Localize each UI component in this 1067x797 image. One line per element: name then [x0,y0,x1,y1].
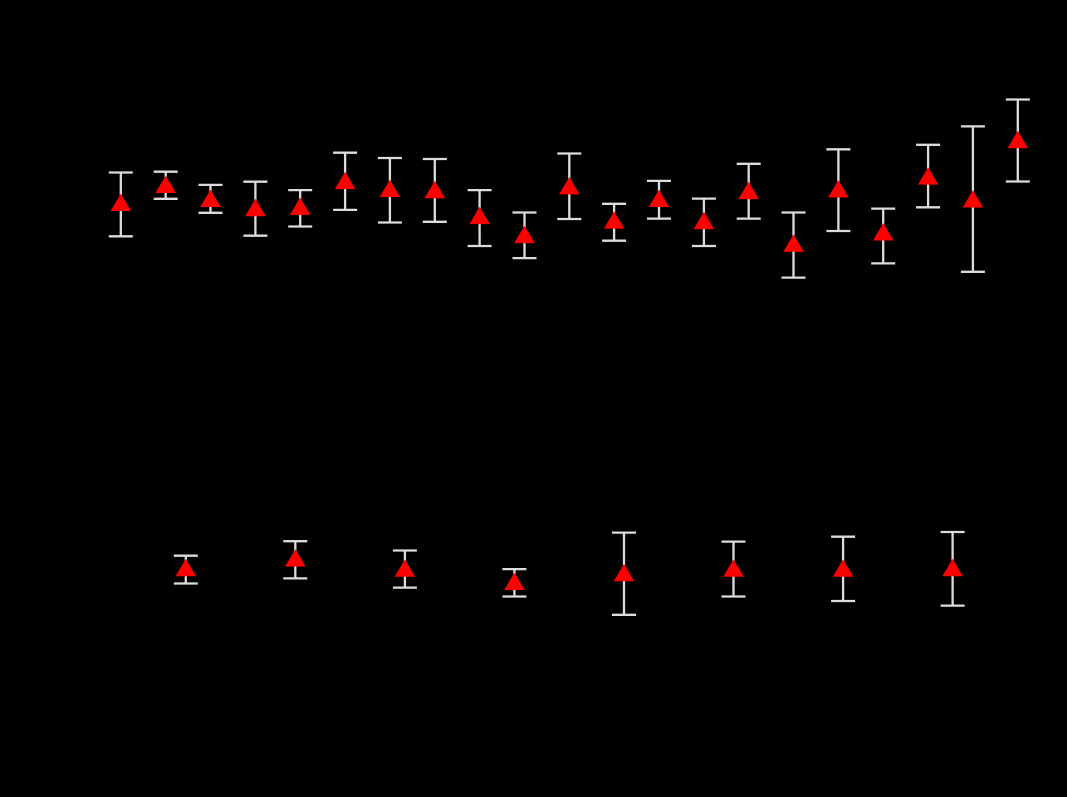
error bar B8 [941,532,965,606]
triangle marker B8 [942,559,963,576]
error bar B7 [831,537,855,601]
error bar A3 [199,185,223,213]
triangle marker A12 [604,211,625,228]
triangle marker A8 [425,181,446,198]
error bar A19 [916,145,940,208]
triangle marker A5 [290,198,311,215]
triangle marker A21 [1008,131,1029,148]
error bar B5 [612,533,636,615]
triangle marker A9 [469,207,490,224]
triangle marker A3 [200,190,221,207]
triangle marker A14 [694,212,715,229]
triangle marker B3 [395,559,416,576]
triangle marker A13 [649,190,669,207]
triangle marker A6 [335,172,356,189]
error bar A10 [513,213,537,259]
triangle marker A4 [245,199,266,216]
error bar A21 [1006,100,1030,182]
error bar A17 [826,149,850,231]
error bar A12 [602,204,626,241]
error bar A1 [109,173,133,237]
error bar A13 [647,181,671,219]
error bar A16 [782,213,806,278]
error bar A4 [243,182,267,236]
triangle marker A11 [559,177,580,194]
error bar B6 [722,542,746,597]
triangle marker B5 [614,564,635,581]
triangle marker A10 [514,226,535,243]
error bar B1 [174,556,198,584]
error bar B3 [393,551,417,588]
triangle marker A1 [111,194,132,211]
error bar A2 [154,172,178,199]
error bar B4 [502,569,526,596]
error bar A15 [737,164,761,219]
triangle marker B7 [833,559,854,576]
error bar A5 [288,190,312,226]
triangle marker A20 [963,190,984,207]
triangle marker A18 [873,223,894,240]
error bar A20 [961,126,985,271]
error bar B2 [283,541,307,578]
error bar A8 [423,159,447,222]
triangle marker B1 [176,559,197,576]
triangle marker A16 [783,234,804,251]
error bar A18 [871,209,895,264]
triangle marker B2 [285,549,306,566]
triangle marker A2 [155,176,176,193]
error bar A14 [692,199,716,246]
triangle marker A19 [918,167,939,184]
error bar A11 [557,154,581,220]
triangle marker A7 [380,180,401,197]
error bar A7 [378,158,402,223]
triangle marker B4 [504,573,525,590]
triangle marker A15 [738,182,759,199]
error bar A6 [333,153,357,210]
triangle marker A17 [828,180,849,197]
error bar A9 [468,190,492,246]
triangle marker B6 [723,559,744,576]
